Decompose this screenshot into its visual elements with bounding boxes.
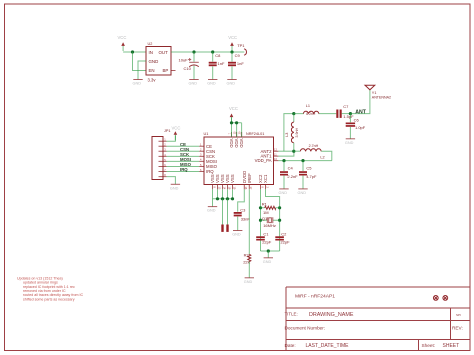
svg-text:L3: L3 [285,133,289,137]
svg-text:EN: EN [149,68,155,73]
wire EN branch [133,52,147,71]
svg-text:16MHz: 16MHz [263,223,276,228]
svg-text:C7: C7 [343,104,349,109]
capacitor C2 22pF [275,232,290,245]
capacitor C1 22pF [256,232,272,245]
ground (crystal) [263,258,273,264]
svg-text:2.7nH: 2.7nH [309,144,319,148]
inductor L1 8.2nH [303,104,319,116]
wire VSS drops [213,189,233,199]
svg-text:GND: GND [133,82,142,86]
test point TP1 [237,43,246,55]
svg-text:4.7pF: 4.7pF [306,174,317,179]
wire JP1 pin8 to GND [167,177,176,185]
svg-text:VCC: VCC [118,35,127,40]
pin stubs top VDD [232,132,242,137]
node ANT2/L2 [292,150,295,153]
node junction at IN rail [131,50,134,53]
svg-text:VSS: VSS [230,174,235,183]
wire CE [167,145,200,147]
ground (C10) [189,80,199,86]
supply VCC (JP1) [172,126,181,141]
pin names bottom rotated [210,171,268,183]
svg-text:1M: 1M [263,210,269,215]
svg-text:DRAWING_NAME: DRAWING_NAME [309,312,354,318]
svg-text:IREF: IREF [247,173,252,183]
notes text block [17,276,84,301]
resistor R1 1M [259,202,281,216]
node C10 [192,50,195,53]
wire IRQ [167,171,200,173]
node C4 [282,159,285,162]
title block [286,287,470,351]
wire XC1 right rail [266,189,280,251]
wire IREF to R2 [248,189,250,254]
node ANT [349,112,352,115]
wire ANT1 riser [278,151,294,156]
frame mark circle 2 [443,296,448,301]
wire SCK [167,155,200,157]
ground (R2) [244,278,254,284]
frame mark circle 1 [433,296,438,301]
connector JP1 [152,129,171,180]
svg-text:C1: C1 [263,232,269,237]
svg-text:VDD: VDD [234,139,239,148]
ground (C9) [227,80,237,86]
svg-text:GND: GND [263,260,272,264]
crystal Q1 16MHz [259,216,281,228]
svg-text:GND: GND [149,59,159,64]
svg-text:shifted some parts as necessar: shifted some parts as necessary [23,297,75,301]
svg-text:1nF: 1nF [218,61,225,66]
svg-text:3.3v: 3.3v [148,78,157,83]
svg-text:GND: GND [207,82,216,86]
svg-text:3.9nH: 3.9nH [295,128,299,138]
svg-text:GND: GND [189,82,198,86]
wire JP1 pin1 to VCC [167,136,176,142]
wire XC2 left rail [260,189,262,251]
capacitor C10 10uF polarized [179,52,199,80]
svg-text:IN: IN [149,50,153,55]
svg-text:C8: C8 [215,53,221,58]
svg-text:1.0pF: 1.0pF [355,125,366,130]
supply VCC (U1 top) [229,106,238,122]
supply VCC (regulator input) [118,35,127,51]
svg-text:Document Number:: Document Number: [285,326,326,331]
pin stubs left [199,146,204,171]
ground (C5) [298,189,308,195]
ground (C6) [345,139,355,145]
svg-text:GND: GND [232,233,241,237]
svg-text:Q1: Q1 [262,216,268,221]
pin names left [206,144,218,174]
capacitor C4 2.2nF [280,161,298,189]
svg-text:GND: GND [170,186,179,190]
svg-text:R2: R2 [244,253,250,258]
svg-text:GND: GND [227,82,236,86]
svg-text:U2: U2 [148,42,153,46]
svg-text:L2: L2 [320,156,324,160]
wire to antenna [350,90,370,114]
svg-text:R1: R1 [262,202,268,207]
svg-text:Y1: Y1 [372,91,377,95]
svg-text:BP: BP [163,68,169,73]
svg-text:GND: GND [244,280,253,284]
svg-text:VDD: VDD [229,139,234,148]
svg-text:IRQ: IRQ [180,167,188,172]
svg-text:GND: GND [345,141,354,145]
svg-text:VDD: VDD [239,139,244,148]
svg-text:MiRF - nRF24AP1: MiRF - nRF24AP1 [295,294,335,300]
svg-text:ANT: ANT [355,109,366,115]
wire VCC to IN [123,51,146,53]
pin stubs right [273,151,278,160]
antenna Y1 ANTENNA2 [365,85,391,99]
wire MISO [167,166,200,168]
svg-text:VCC: VCC [228,35,237,40]
svg-text:JP1: JP1 [164,129,171,133]
svg-text:SPI: SPI [456,313,461,317]
wire VDD_PA [278,160,331,162]
wire VSS rail [213,198,233,200]
node C9/VCC [230,50,233,53]
ground (JP1) [170,184,180,190]
capacitor C3 [234,207,251,230]
wire node A riser [284,114,294,152]
wire ANT2 [278,150,293,152]
capacitor C9 [228,52,244,80]
svg-text:SHEET: SHEET [443,343,460,349]
ground (regulator) [133,80,143,86]
wire crystal bottom rail [261,250,280,252]
svg-text:L1: L1 [306,104,310,108]
ground (C4) [279,189,289,195]
svg-text:C9: C9 [235,53,241,58]
wire VDD bus [232,118,242,138]
test pad TP3 [226,199,228,232]
svg-text:VDD_PA: VDD_PA [255,158,272,163]
ground (C3) [232,231,242,237]
svg-text:10uF: 10uF [179,58,189,63]
wire CSN [167,150,200,152]
pin names VDD x3 [229,139,244,148]
test pad TP2 [221,199,223,232]
node C5 [301,159,304,162]
ground (VSS) [207,207,217,213]
wire to ground [212,199,214,207]
wire OUT rail [171,51,244,53]
svg-text:TP1: TP1 [237,43,245,48]
svg-text:22pF: 22pF [262,239,272,244]
node VDD bus [230,121,233,124]
svg-text:IRQ: IRQ [206,169,214,174]
capacitor C5 4.7pF [299,161,317,189]
svg-text:C10: C10 [184,66,192,71]
svg-text:NRF24L01: NRF24L01 [246,132,264,136]
svg-text:C2: C2 [281,232,287,237]
svg-text:XC1: XC1 [263,174,268,183]
capacitor C7 1.5pF series [336,104,354,119]
svg-text:Sheet:: Sheet: [422,343,436,348]
wire DVDD to C3 [238,189,245,212]
wire GND branch [138,61,146,80]
svg-text:2.2nF: 2.2nF [287,174,298,179]
capacitor C8 [209,52,225,80]
svg-text:GND: GND [207,209,216,213]
inductor L2 2.7nH [294,144,332,161]
svg-text:C5: C5 [306,165,312,170]
supply VCC (rail right) [228,35,237,51]
resistor R2 22K [243,253,251,278]
svg-text:1nF: 1nF [237,61,244,66]
pin stubs bottom [213,184,266,189]
ground (C8) [207,80,217,86]
IC U1 nRF24L01 body [204,132,274,184]
svg-text:LAST_DATE_TIME: LAST_DATE_TIME [306,343,350,349]
svg-text:TITLE:: TITLE: [285,312,298,317]
wire MOSI [167,160,200,162]
svg-text:ANTENNA2: ANTENNA2 [372,96,391,100]
svg-text:OUT: OUT [159,50,169,55]
svg-text:VCC: VCC [229,106,238,111]
svg-text:VCC: VCC [172,126,181,131]
svg-text:Date:: Date: [285,343,296,348]
capacitor C6 1.0pF [346,114,366,139]
pin stub BP [171,70,176,72]
svg-text:C6: C6 [354,117,360,122]
svg-text:U1: U1 [204,132,209,136]
svg-text:GND: GND [298,191,307,195]
pin names right [255,149,272,163]
svg-text:22pF: 22pF [281,239,291,244]
svg-text:C3: C3 [240,207,246,212]
svg-text:1.5pF: 1.5pF [343,114,354,119]
node A [292,112,295,115]
svg-text:C4: C4 [288,165,294,170]
wire to ground [267,251,269,258]
inductor L3 vertical [285,114,299,152]
wire L1 top [294,113,337,115]
svg-text:REV:: REV: [452,326,463,331]
svg-text:8.2nH: 8.2nH [306,112,316,116]
node C8 [211,50,214,53]
voltage regulator U2 [146,42,171,75]
svg-text:GND: GND [279,191,288,195]
